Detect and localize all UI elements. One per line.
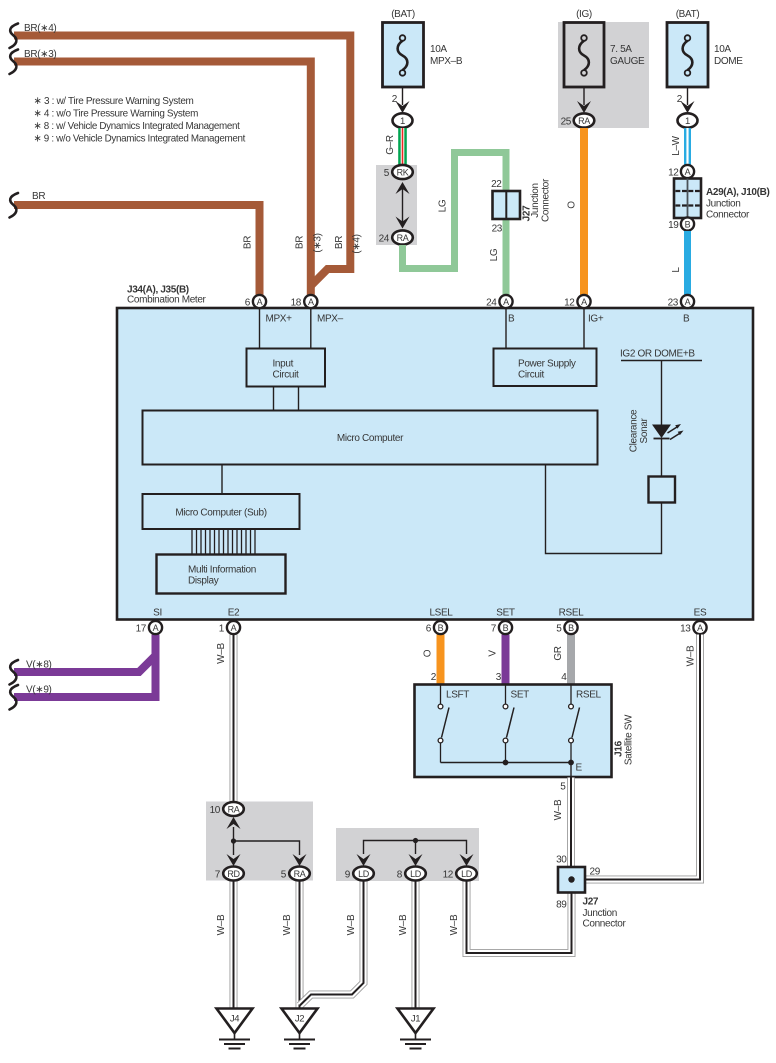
wire LD distribution bus [364, 841, 467, 855]
svg-text:24: 24 [486, 298, 497, 309]
wire bus to 8 LD [415, 841, 417, 855]
svg-text:1: 1 [400, 116, 405, 127]
svg-text:BR: BR [334, 236, 345, 249]
svg-text:IG2 OR DOME+B: IG2 OR DOME+B [620, 349, 695, 360]
svg-text:6: 6 [426, 624, 432, 635]
ground J4 [217, 1009, 253, 1049]
svg-text:A: A [257, 297, 263, 307]
connector oval 7 RD [215, 867, 244, 881]
svg-text:12: 12 [443, 870, 454, 881]
svg-text:B: B [683, 314, 690, 325]
wire input circuit to micro computer (right) [298, 387, 300, 411]
label Junction Connector (top, rotated) [530, 178, 552, 222]
svg-text:LG: LG [489, 248, 500, 261]
arrow into 9 LD [357, 854, 371, 866]
micro computer block [143, 411, 598, 465]
wire G-R [398, 128, 407, 166]
svg-text:E: E [576, 763, 583, 774]
svg-text:SET: SET [496, 608, 515, 619]
svg-text:8: 8 [397, 870, 403, 881]
svg-text:A: A [308, 297, 314, 307]
svg-text:V(∗9): V(∗9) [26, 685, 52, 696]
svg-text:RSEL: RSEL [576, 690, 602, 701]
fuse DOME 10A [667, 23, 708, 88]
svg-text:13: 13 [680, 624, 691, 635]
svg-text:B: B [503, 623, 509, 633]
label J27 Junction Connector (bottom) [583, 897, 627, 930]
svg-text:LG: LG [438, 199, 449, 212]
svg-text:ES: ES [694, 608, 707, 619]
pin 19 B (junction connector) [668, 217, 694, 231]
wire L-W [684, 128, 691, 166]
switch RSEL [569, 685, 602, 763]
svg-text:19: 19 [668, 220, 679, 231]
wire O (IG+) [580, 128, 588, 295]
wire lead pin24 to power supply circuit [505, 309, 507, 349]
svg-text:6: 6 [245, 298, 251, 309]
svg-text:GAUGE: GAUGE [610, 56, 645, 67]
wire resistor box to micro computer [546, 464, 662, 554]
wire W-B 9 LD joining ground J2 [300, 881, 364, 1006]
wire fuse GAUGE to connector 25 [583, 87, 585, 105]
break symbol V(*8) [10, 660, 19, 685]
svg-text:W–B: W–B [346, 914, 357, 935]
connector oval 8 LD [397, 867, 426, 881]
connector oval 5 RA [281, 867, 310, 881]
svg-text:23: 23 [668, 298, 679, 309]
break symbol BR(*4) [10, 24, 19, 49]
svg-text:3: 3 [496, 672, 502, 683]
svg-text:A: A [231, 623, 237, 633]
svg-text:RA: RA [294, 869, 306, 879]
wire O (LSEL) [437, 635, 445, 686]
wire fuse DOME to connector 1 [687, 87, 689, 105]
break symbol V(*9) [10, 685, 19, 710]
junction connector J27 (top) [493, 191, 521, 219]
wire W-B satellite E to J27 [567, 778, 575, 869]
break symbol BR [10, 193, 19, 218]
svg-text:Power Supply: Power Supply [518, 359, 576, 370]
svg-text:Combination Meter: Combination Meter [127, 295, 207, 306]
ground J2 [282, 1009, 318, 1049]
satellite switch J16 box [415, 685, 612, 778]
multi information display block [157, 555, 286, 594]
svg-text:BR(∗3): BR(∗3) [24, 49, 56, 60]
wire BR(*4) [14, 36, 350, 286]
svg-text:Circuit: Circuit [273, 370, 299, 381]
junction dot (LD bus) [413, 838, 418, 843]
input circuit block [247, 349, 326, 387]
svg-text:BR(∗4): BR(∗4) [24, 23, 56, 34]
svg-text:W–B: W–B [449, 914, 460, 935]
svg-text:9: 9 [345, 870, 351, 881]
svg-text:B: B [508, 314, 515, 325]
label J34(A), J35(B) Combination Meter [127, 285, 207, 306]
svg-text:RK: RK [397, 168, 409, 178]
svg-text:J2: J2 [295, 1014, 304, 1025]
svg-text:RA: RA [228, 805, 240, 815]
svg-text:MPX+: MPX+ [266, 314, 293, 325]
svg-text:Micro Computer: Micro Computer [337, 433, 404, 444]
svg-text:LD: LD [461, 869, 473, 879]
svg-text:A: A [685, 167, 691, 177]
svg-text:Sonar: Sonar [639, 418, 650, 444]
svg-text:RD: RD [227, 869, 240, 879]
svg-text:Connector: Connector [583, 919, 627, 930]
connector oval 25 RA [561, 113, 595, 127]
svg-text:RA: RA [578, 116, 590, 126]
label 10A DOME [714, 44, 743, 67]
svg-text:Micro Computer (Sub): Micro Computer (Sub) [175, 508, 266, 519]
ground J1 [398, 1009, 434, 1049]
svg-text:J1: J1 [411, 1014, 420, 1025]
svg-text:17: 17 [136, 624, 147, 635]
arrow into 8 LD [409, 854, 423, 866]
wire W-B from J27 pin 89 to 12 LD [467, 881, 572, 953]
svg-text:LD: LD [410, 869, 422, 879]
svg-text:Junction: Junction [583, 908, 617, 919]
svg-text:4: 4 [561, 672, 567, 683]
wire input circuit to micro computer (left) [273, 387, 275, 411]
junction connector J27 (bottom) [558, 867, 585, 893]
svg-text:5: 5 [384, 168, 390, 179]
wire lead pin12 to power supply circuit [583, 309, 585, 349]
svg-text:B: B [438, 623, 444, 633]
svg-text:LSFT: LSFT [446, 690, 469, 701]
wire BR [14, 205, 260, 295]
svg-text:30: 30 [556, 855, 567, 866]
svg-text:10A: 10A [714, 44, 731, 55]
svg-text:G–R: G–R [385, 135, 396, 155]
svg-text:Junction: Junction [530, 183, 541, 217]
svg-text:∗ 9 : w/o Vehicle Dynamics Int: ∗ 9 : w/o Vehicle Dynamics Integrated Ma… [34, 133, 246, 145]
connector oval 5 RK [384, 165, 413, 179]
node IG2 OR DOME+B [620, 349, 702, 361]
svg-text:L: L [671, 267, 682, 273]
svg-text:(IG): (IG) [576, 9, 592, 20]
svg-text:MPX–B: MPX–B [430, 56, 463, 67]
svg-text:A: A [697, 623, 703, 633]
svg-text:BR: BR [243, 236, 254, 249]
arrow into 5 RA [293, 854, 307, 866]
svg-text:J27: J27 [583, 897, 599, 908]
connector oval 12 LD [443, 867, 477, 881]
combination meter J34(A) J35(B) main box [117, 308, 753, 620]
resistor box (clearance sonar) [649, 477, 676, 503]
svg-text:W–B: W–B [398, 914, 409, 935]
svg-text:12: 12 [564, 298, 575, 309]
svg-text:BR: BR [295, 236, 306, 249]
svg-text:(BAT): (BAT) [676, 9, 700, 20]
svg-text:Circuit: Circuit [518, 370, 544, 381]
pin 17 A (meter SI) [136, 621, 163, 635]
label A29(A), J10(B) Junction Connector [706, 187, 769, 221]
svg-text:10: 10 [210, 805, 221, 816]
svg-text:J4: J4 [230, 1014, 239, 1025]
svg-text:B: B [685, 220, 691, 230]
svg-text:RA: RA [397, 233, 409, 243]
svg-text:LD: LD [358, 869, 370, 879]
svg-text:∗ 4 : w/o Tire Pressure Warnin: ∗ 4 : w/o Tire Pressure Warning System [34, 108, 199, 120]
svg-text:A: A [581, 297, 587, 307]
pin 23 A (meter B) [668, 295, 695, 309]
power supply circuit block [494, 349, 597, 387]
svg-text:23: 23 [492, 224, 503, 235]
svg-text:∗ 3 : w/ Tire Pressure Warning: ∗ 3 : w/ Tire Pressure Warning System [34, 95, 195, 107]
svg-text:(BAT): (BAT) [391, 9, 415, 20]
junction connector A29(A) J10(B) [674, 179, 701, 219]
svg-text:DOME: DOME [714, 56, 743, 67]
shaded background of connector block RA/RD/RA [206, 802, 313, 881]
bus hatch between sub and display [192, 529, 255, 555]
svg-text:∗ 8 : w/ Vehicle Dynamics Inte: ∗ 8 : w/ Vehicle Dynamics Integrated Man… [34, 120, 240, 132]
pin 6 A (meter MPX+) [245, 295, 266, 309]
wire lead pin18 to input circuit [310, 309, 312, 349]
svg-text:RSEL: RSEL [559, 608, 585, 619]
svg-text:A: A [153, 623, 159, 633]
micro computer sub block [143, 494, 300, 529]
wire W-B 7 RD to ground J4 [230, 881, 238, 1009]
pin 13 A (meter ES) [680, 621, 707, 635]
arrow into 12 LD [460, 854, 474, 866]
connector oval 9 LD [345, 867, 374, 881]
wire IG2 rail to LED [661, 361, 663, 426]
arrow into 7 RD [227, 854, 241, 866]
svg-text:22: 22 [491, 179, 502, 190]
svg-text:2: 2 [431, 672, 437, 683]
wire 10 RA to junction [233, 827, 235, 855]
svg-text:25: 25 [561, 117, 572, 128]
wire W-B from E2 to connector 10 RA [230, 635, 238, 804]
pin 5 B (meter RSEL) [556, 621, 577, 635]
svg-text:W–B: W–B [686, 645, 697, 666]
wire fuse MPX-B to connector 1 [402, 87, 404, 105]
wire V (SET) [502, 635, 510, 686]
svg-text:A29(A), J10(B): A29(A), J10(B) [706, 187, 769, 198]
pin 12 A (junction connector) [668, 165, 694, 179]
label 7.5A GAUGE [610, 44, 645, 67]
svg-text:Connector: Connector [541, 178, 552, 222]
svg-text:A: A [503, 297, 509, 307]
arrow into connector 1 [396, 101, 410, 113]
svg-text:L–W: L–W [671, 135, 682, 155]
fuse GAUGE 7.5A [564, 23, 604, 88]
svg-text:10A: 10A [430, 44, 447, 55]
svg-text:MPX–: MPX– [317, 314, 344, 325]
wire E node to box edge [570, 763, 572, 778]
svg-text:A: A [685, 297, 691, 307]
arrow into connector 1 (DOME) [681, 101, 695, 113]
svg-text:GR: GR [553, 646, 564, 660]
wire micro computer to micro computer sub [221, 465, 223, 495]
label Clearance Sonar [629, 409, 651, 452]
pin 12 A (meter IG+) [564, 295, 591, 309]
svg-text:O: O [567, 201, 578, 209]
svg-text:Display: Display [188, 576, 219, 587]
svg-text:SI: SI [153, 608, 162, 619]
svg-text:SET: SET [511, 690, 530, 701]
pin 18 A (meter MPX-) [291, 295, 318, 309]
wire W-B 8 LD to ground J1 [412, 881, 420, 1009]
shaded background of connector block LD/LD/LD [336, 828, 479, 881]
connector oval 10 RA [210, 802, 244, 816]
svg-text:Clearance: Clearance [629, 409, 640, 452]
svg-text:(∗3): (∗3) [313, 233, 324, 252]
break symbol BR(*3) [10, 50, 19, 75]
svg-text:Satellite SW: Satellite SW [624, 714, 635, 765]
svg-text:18: 18 [291, 298, 302, 309]
svg-text:1: 1 [219, 624, 225, 635]
svg-text:12: 12 [668, 168, 679, 179]
wire LG [403, 153, 507, 296]
svg-text:W–B: W–B [282, 914, 293, 935]
wire junction to 5 RA [234, 841, 300, 855]
pin 1 A (meter E2) [219, 621, 240, 635]
svg-text:1: 1 [685, 116, 690, 127]
svg-text:W–B: W–B [216, 643, 227, 664]
connector oval 24 RA [379, 230, 413, 244]
svg-text:7: 7 [215, 870, 221, 881]
svg-text:B: B [568, 623, 574, 633]
junction dot / node E [568, 760, 574, 766]
wire GR (RSEL) [567, 635, 575, 686]
double arrow between RK and RA [396, 182, 410, 229]
svg-text:24: 24 [379, 234, 390, 245]
svg-text:Junction: Junction [706, 199, 740, 210]
svg-text:BR: BR [32, 191, 45, 202]
wire W-B from ES pin to J27 pin 29 [585, 635, 700, 880]
junction dot (SET) [503, 760, 509, 766]
pin 7 B (meter SET) [491, 621, 512, 635]
svg-text:5: 5 [281, 870, 287, 881]
pin 6 B (meter LSEL) [426, 621, 447, 635]
svg-text:7. 5A: 7. 5A [610, 44, 632, 55]
svg-text:Input: Input [273, 359, 294, 370]
svg-text:5: 5 [556, 624, 562, 635]
svg-text:89: 89 [556, 900, 567, 911]
svg-text:O: O [423, 649, 434, 657]
switch common bus wire [441, 762, 572, 764]
junction dot (RA/RD) [231, 838, 236, 843]
svg-text:W–B: W–B [553, 799, 564, 820]
svg-text:5: 5 [560, 782, 566, 793]
svg-text:Connector: Connector [706, 210, 750, 221]
switch SET [503, 685, 529, 763]
wire V (SI) with branches *8 and *9 [14, 635, 156, 698]
svg-text:V: V [488, 650, 499, 657]
arrow into connector 25 [577, 101, 591, 113]
wire W-B 5 RA to ground J2 [296, 881, 304, 1009]
switch LSFT [438, 685, 469, 763]
wire LED to resistor box [661, 439, 663, 478]
fuse MPX-B 10A [383, 23, 424, 88]
svg-text:7: 7 [491, 624, 497, 635]
svg-text:29: 29 [590, 867, 601, 878]
connector oval 1 (MPX-B) [393, 113, 413, 127]
LED clearance sonar indicator [652, 424, 684, 440]
svg-text:V(∗8): V(∗8) [26, 660, 52, 671]
svg-text:E2: E2 [228, 608, 240, 619]
wire L [684, 231, 691, 295]
svg-text:W–B: W–B [216, 914, 227, 935]
label 10A MPX-B [430, 44, 463, 67]
wire BR(*3) [14, 62, 311, 296]
svg-text:IG+: IG+ [588, 314, 604, 325]
shaded background of fuse GAUGE block [558, 22, 649, 128]
svg-text:LSEL: LSEL [429, 608, 453, 619]
shaded background of connector block RK/RA [376, 165, 417, 245]
svg-text:(∗4): (∗4) [352, 234, 363, 253]
arrow up toward 10 RA [227, 817, 241, 829]
pin 24 A (meter B) [486, 295, 513, 309]
connector oval 1 (DOME) [678, 113, 698, 127]
wire lead pin6 to input circuit [259, 309, 261, 349]
svg-text:Multi Information: Multi Information [188, 565, 256, 576]
